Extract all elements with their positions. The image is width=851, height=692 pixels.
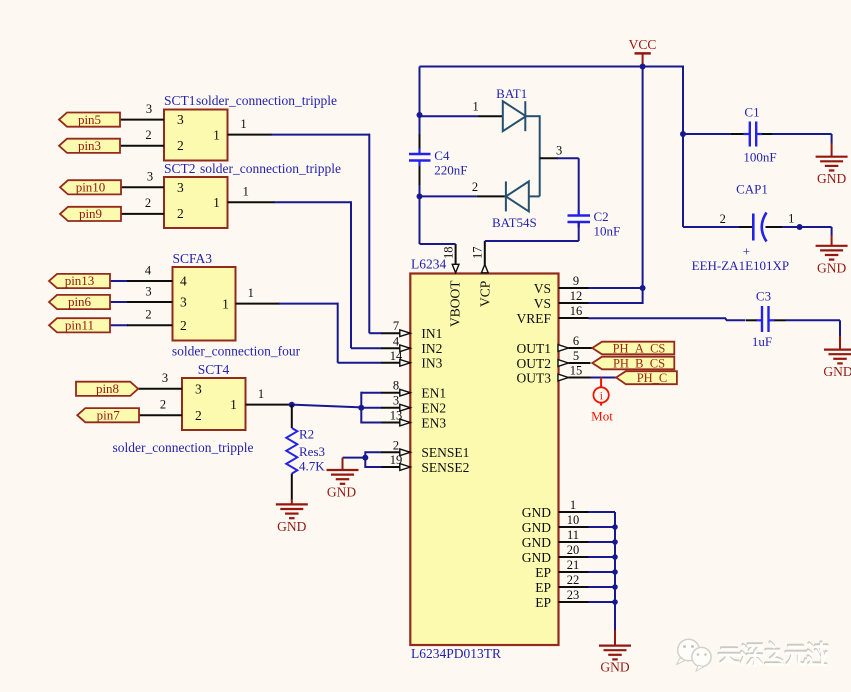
- svg-text:OUT3: OUT3: [517, 370, 552, 385]
- svg-text:3: 3: [146, 102, 152, 116]
- pin SCFA3-3: [110, 285, 173, 303]
- svg-text:10nF: 10nF: [594, 224, 621, 239]
- wire diode U-link: [525, 115, 539, 196]
- svg-text:SENSE2: SENSE2: [421, 460, 469, 475]
- svg-text:EP: EP: [535, 565, 551, 580]
- wire OUT1 to flag: [591, 347, 593, 349]
- svg-text:2: 2: [177, 206, 184, 221]
- pin SCT2-3: [121, 170, 164, 188]
- svg-text:VS: VS: [534, 281, 551, 296]
- svg-text:solder_connection_tripple: solder_connection_tripple: [113, 440, 254, 455]
- connector SCT2: [164, 161, 341, 228]
- svg-text:solder_connection_tripple: solder_connection_tripple: [200, 161, 341, 176]
- svg-text:220nF: 220nF: [434, 163, 467, 178]
- svg-text:7: 7: [393, 319, 399, 333]
- svg-text:GND: GND: [823, 364, 851, 379]
- svg-text:PH_A_CS: PH_A_CS: [613, 342, 666, 356]
- svg-text:EEH-ZA1E101XP: EEH-ZA1E101XP: [692, 258, 790, 273]
- IC top pin 17 VCP: [471, 241, 489, 273]
- resistor R2 Res3 4.7K: [286, 427, 325, 474]
- svg-text:EN1: EN1: [421, 386, 446, 401]
- node 3 wire to C2: [540, 144, 579, 216]
- junction VS node: [640, 285, 646, 291]
- capacitor C4 220nF: [409, 148, 468, 178]
- svg-text:10: 10: [567, 513, 580, 527]
- svg-text:VCC: VCC: [629, 37, 657, 52]
- svg-text:EP: EP: [535, 580, 551, 595]
- port pin8: [76, 381, 138, 396]
- junction EN bus node: [358, 405, 364, 411]
- svg-text:C2: C2: [594, 209, 609, 224]
- svg-text:SCT4: SCT4: [198, 362, 230, 377]
- svg-text:EN3: EN3: [421, 415, 446, 430]
- svg-text:2: 2: [145, 128, 151, 142]
- svg-text:SENSE1: SENSE1: [421, 445, 469, 460]
- svg-text:PH_C: PH_C: [637, 371, 668, 385]
- svg-text:OUT1: OUT1: [517, 341, 552, 356]
- ground GND at C1: [816, 134, 848, 186]
- capacitor C1 100nF: [683, 105, 832, 165]
- svg-text:1: 1: [230, 397, 237, 412]
- capacitor CAP1 EEH-ZA1E101XP: [683, 182, 832, 274]
- diode BAT54S (bottom): [420, 180, 537, 230]
- svg-text:pin5: pin5: [78, 112, 101, 127]
- svg-text:pin13: pin13: [65, 273, 95, 288]
- junction C4 top node: [417, 112, 423, 118]
- svg-text:3: 3: [195, 382, 202, 397]
- port PH_B_CS: [592, 357, 674, 371]
- svg-text:21: 21: [567, 558, 580, 572]
- svg-text:22: 22: [567, 573, 580, 587]
- svg-text:3: 3: [393, 394, 399, 408]
- svg-text:2: 2: [472, 180, 478, 194]
- port PH_A_CS: [592, 342, 674, 356]
- port pin11: [49, 318, 110, 333]
- junction EP bus dots: [612, 524, 618, 605]
- svg-text:IN3: IN3: [421, 356, 442, 371]
- svg-text:1: 1: [243, 185, 249, 199]
- pin SCT4-3: [138, 371, 182, 389]
- svg-text:1uF: 1uF: [752, 334, 772, 349]
- svg-text:1: 1: [213, 128, 220, 143]
- wire C4 column: [420, 67, 456, 245]
- svg-text:PH_B_CS: PH_B_CS: [613, 357, 665, 371]
- svg-text:1: 1: [258, 387, 264, 401]
- svg-text:GND: GND: [600, 660, 629, 675]
- wire VS node: [589, 288, 643, 304]
- svg-text:2: 2: [145, 308, 151, 322]
- svg-text:Res3: Res3: [299, 444, 325, 459]
- pin SCT1-2: [120, 128, 164, 146]
- svg-text:12: 12: [570, 289, 583, 303]
- ground GND below R2: [276, 504, 308, 534]
- svg-text:5: 5: [573, 349, 579, 363]
- svg-text:BAT54S: BAT54S: [492, 215, 537, 230]
- diode BAT1 (top): [420, 86, 528, 131]
- svg-text:L6234PD013TR: L6234PD013TR: [411, 646, 501, 661]
- svg-text:SCT2: SCT2: [164, 161, 196, 176]
- svg-text:2: 2: [195, 408, 202, 423]
- wire SCFA3 pin1 to IN3: [236, 286, 383, 363]
- wire OUT3 to flag: [591, 377, 617, 379]
- wire VCC top rail: [420, 66, 684, 68]
- svg-text:3: 3: [177, 112, 184, 127]
- svg-text:3: 3: [162, 371, 168, 385]
- svg-text:R2: R2: [299, 427, 314, 442]
- svg-text:1: 1: [240, 117, 246, 131]
- IC pin names right side: [516, 281, 551, 610]
- ground GND at C3: [823, 320, 851, 379]
- wire VCC right branch: [682, 66, 684, 228]
- svg-text:C1: C1: [744, 105, 759, 120]
- port pin7: [77, 407, 139, 422]
- port PH_C: [616, 371, 677, 385]
- svg-text:19: 19: [390, 453, 403, 467]
- svg-text:9: 9: [573, 274, 579, 288]
- junction C1 branch node: [680, 131, 686, 137]
- svg-text:GND: GND: [817, 171, 846, 186]
- svg-text:3: 3: [177, 180, 184, 195]
- svg-text:GND: GND: [522, 535, 551, 550]
- ground GND at EP bus: [599, 630, 631, 675]
- svg-text:13: 13: [390, 409, 403, 423]
- connector SCFA3: [172, 251, 301, 359]
- svg-text:17: 17: [471, 247, 485, 260]
- pin SCT4-2: [139, 398, 182, 416]
- IC left pins: [381, 319, 410, 470]
- ground GND at CAP1: [816, 227, 848, 276]
- svg-text:2: 2: [180, 318, 187, 333]
- svg-text:IN2: IN2: [421, 341, 442, 356]
- svg-text:pin3: pin3: [78, 138, 101, 153]
- capacitor C2 10nF: [568, 209, 621, 239]
- svg-text:2: 2: [145, 196, 151, 210]
- svg-text:4.7K: 4.7K: [299, 459, 325, 474]
- svg-text:1: 1: [213, 195, 220, 210]
- port pin9: [60, 206, 121, 221]
- svg-text:2: 2: [720, 212, 726, 226]
- wire VCC down to VS: [642, 67, 644, 289]
- svg-text:2: 2: [393, 438, 399, 452]
- svg-text:15: 15: [570, 364, 583, 378]
- svg-text:SCT1: SCT1: [164, 93, 196, 108]
- power VCC: [629, 37, 657, 67]
- svg-text:1: 1: [248, 286, 254, 300]
- port pin13: [49, 273, 110, 288]
- svg-text:4: 4: [393, 334, 400, 348]
- svg-text:pin6: pin6: [68, 294, 92, 309]
- svg-text:solder_connection_tripple: solder_connection_tripple: [196, 93, 337, 108]
- wire SCT1 pin1 to IN1: [228, 117, 383, 333]
- connector SCT4: [113, 362, 254, 455]
- IC right pins GND/EP: [559, 498, 589, 602]
- svg-text:+: +: [743, 244, 750, 259]
- svg-text:Mot: Mot: [591, 409, 613, 424]
- svg-text:CAP1: CAP1: [736, 182, 768, 197]
- wire R2 top: [291, 405, 293, 428]
- wire C2 to pin17: [485, 222, 579, 241]
- svg-text:C3: C3: [756, 289, 771, 304]
- wire VREF to C3: [589, 318, 746, 320]
- wire SCT2 pin1 to IN2: [228, 185, 383, 349]
- svg-text:3: 3: [556, 144, 562, 158]
- svg-text:VCP: VCP: [478, 281, 493, 307]
- svg-text:4: 4: [180, 274, 187, 289]
- port pin10: [60, 180, 121, 195]
- junction CAP1 pin1 node: [797, 224, 803, 230]
- svg-text:OUT2: OUT2: [517, 356, 552, 371]
- svg-text:GND: GND: [817, 261, 846, 276]
- svg-text:pin8: pin8: [96, 381, 119, 396]
- svg-text:IN1: IN1: [421, 326, 442, 341]
- wire SCT4 pin1 to EN bus: [246, 387, 362, 407]
- svg-text:1: 1: [788, 212, 794, 226]
- svg-text:pin10: pin10: [76, 180, 106, 195]
- junction C4 bottom node: [417, 193, 423, 199]
- svg-text:2: 2: [177, 138, 184, 153]
- svg-text:20: 20: [567, 543, 580, 557]
- wire GND/EP bus: [589, 512, 616, 631]
- svg-text:VS: VS: [534, 296, 551, 311]
- svg-text:2: 2: [160, 398, 166, 412]
- svg-text:GND: GND: [522, 550, 551, 565]
- IC right pins VS VS VREF: [559, 274, 589, 318]
- svg-text:EP: EP: [535, 595, 551, 610]
- svg-text:VREF: VREF: [516, 311, 551, 326]
- IC right pins OUT1 OUT2 OUT3: [558, 334, 591, 381]
- wire EN bus: [361, 392, 382, 424]
- watermark wechat logo: [677, 639, 712, 671]
- svg-text:14: 14: [390, 349, 403, 363]
- op-amp/driver IC U1 L6234PD013TR body: [410, 257, 558, 662]
- svg-text:1: 1: [222, 297, 229, 312]
- svg-text:3: 3: [147, 170, 153, 184]
- svg-text:1: 1: [472, 100, 478, 114]
- watermark text: [719, 642, 828, 666]
- svg-text:pin7: pin7: [97, 407, 121, 422]
- junction SCT4 output node: [289, 402, 295, 408]
- svg-text:11: 11: [567, 528, 579, 542]
- svg-text:23: 23: [567, 588, 580, 602]
- svg-text:3: 3: [180, 295, 187, 310]
- svg-text:4: 4: [145, 264, 152, 278]
- capacitor C3 1uF: [746, 289, 840, 350]
- connector SCT1: [164, 93, 337, 161]
- svg-text:6: 6: [573, 334, 579, 348]
- port pin3: [59, 138, 120, 153]
- svg-text:i: i: [600, 391, 603, 403]
- svg-text:EN2: EN2: [421, 401, 446, 416]
- svg-text:VBOOT: VBOOT: [448, 280, 463, 327]
- svg-text:16: 16: [570, 304, 583, 318]
- IC pin names left side: [421, 326, 469, 475]
- port pin6: [49, 294, 110, 309]
- svg-text:100nF: 100nF: [743, 150, 776, 165]
- IC pin names top (rotated): [448, 280, 493, 327]
- pin SCT2-2: [121, 196, 164, 214]
- junction VCC node: [640, 64, 646, 70]
- svg-text:pin9: pin9: [79, 206, 102, 221]
- svg-text:C4: C4: [434, 148, 450, 163]
- wire R2 bottom: [291, 474, 293, 505]
- junction SENSE bus node: [362, 455, 368, 461]
- svg-text:solder_connection_four: solder_connection_four: [172, 344, 301, 359]
- IC top pin 18 VBOOT: [442, 244, 460, 273]
- svg-text:GND: GND: [327, 485, 356, 500]
- wire SENSE bus: [343, 451, 383, 468]
- svg-text:SCFA3: SCFA3: [173, 251, 213, 266]
- directive Mot: [591, 378, 613, 424]
- svg-text:8: 8: [393, 379, 399, 393]
- svg-text:pin11: pin11: [65, 318, 94, 333]
- svg-text:3: 3: [145, 285, 151, 299]
- svg-text:GND: GND: [277, 519, 306, 534]
- ground GND at SENSE: [327, 458, 359, 500]
- svg-text:GND: GND: [522, 505, 551, 520]
- svg-text:BAT1: BAT1: [496, 86, 527, 101]
- pin SCFA3-4: [110, 264, 173, 282]
- port pin5: [59, 112, 120, 127]
- svg-text:GND: GND: [522, 520, 551, 535]
- pin SCT1-3: [120, 102, 164, 120]
- pin SCFA3-2: [110, 308, 173, 326]
- svg-text:18: 18: [442, 247, 456, 260]
- svg-text:1: 1: [570, 498, 576, 512]
